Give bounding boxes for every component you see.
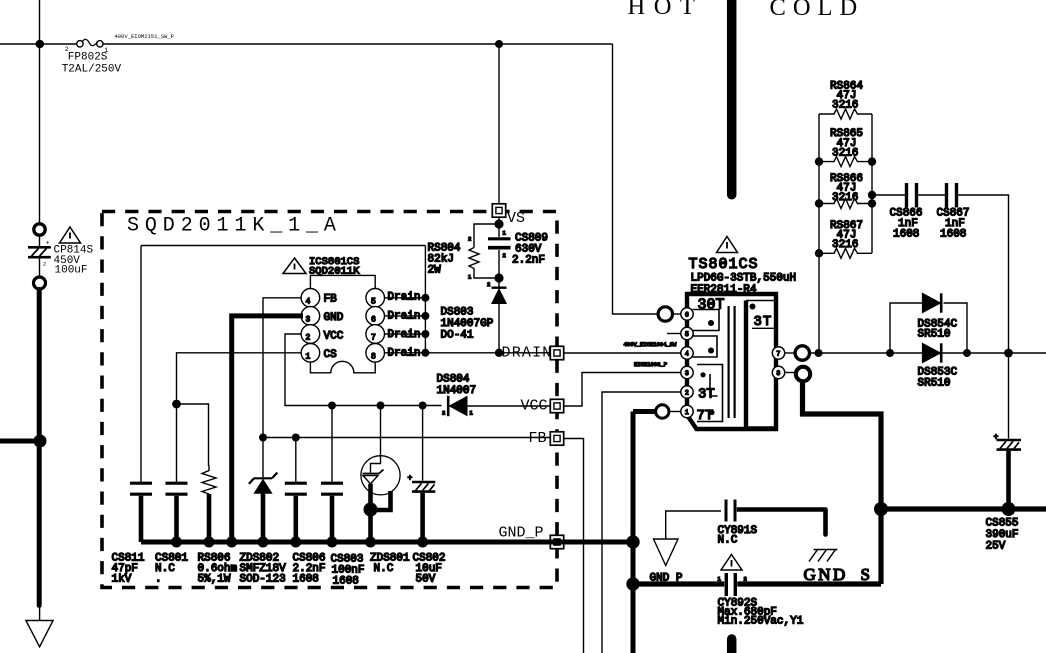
svg-text:6: 6 — [685, 312, 689, 319]
node junction (967,353) — [963, 349, 971, 357]
svg-text:2: 2 — [306, 334, 311, 343]
svg-text:GND: GND — [324, 312, 344, 324]
svg-text:LPD6G-3STB,550uH: LPD6G-3STB,550uH — [691, 273, 797, 285]
diode DS804 1N4007 — [437, 374, 551, 417]
svg-text:3: 3 — [685, 370, 689, 377]
svg-text:SOD-123: SOD-123 — [240, 574, 286, 586]
diode DS803 1N4007GP — [441, 278, 507, 353]
wire: drain stubs to rail — [385, 298, 426, 353]
node VS junction (499,224) — [494, 219, 503, 228]
svg-text:+: + — [46, 240, 50, 247]
pin 4 FB — [301, 289, 320, 308]
wire: thick stub ring1 to x=633 — [633, 409, 656, 414]
svg-text:T2AL/250V: T2AL/250V — [62, 63, 122, 75]
svg-text:25V: 25V — [986, 541, 1006, 553]
warning triangle CP814S — [60, 227, 81, 243]
wire: FB pin4 left and down x=263 — [263, 298, 301, 438]
wire: VCC pin2 left, down x=285, right y=405.5 — [285, 334, 442, 406]
svg-text:5: 5 — [685, 331, 689, 338]
capacitor CP814S — [28, 236, 94, 277]
wire: VS drop x=499 — [498, 44, 500, 224]
svg-text:6: 6 — [371, 316, 376, 325]
svg-text:DS803: DS803 — [441, 307, 474, 319]
node: junction (40,441) — [34, 435, 47, 448]
node junction (633,542) — [626, 535, 639, 548]
op-amp/controller IC U1 ICS801CS SQD2011K — [283, 256, 421, 373]
svg-text:3T: 3T — [698, 387, 715, 403]
svg-text:7: 7 — [371, 334, 376, 343]
svg-text:GND: GND — [804, 565, 848, 584]
wire: GND pin3 thick to x=231.7 down — [232, 316, 303, 540]
port GND_P — [550, 535, 563, 548]
svg-text:2: 2 — [744, 576, 747, 583]
capacitor CS811 47pF 1kV — [112, 483, 153, 585]
svg-text:3T: 3T — [754, 314, 773, 330]
zener ZDS802 SMFZ18V — [240, 438, 287, 586]
svg-text:30T: 30T — [698, 297, 725, 314]
wire: thick pin8 return path — [803, 380, 882, 584]
wire: thin stub to ground — [39, 608, 41, 621]
wire: DRAIN port to transformer pin4 — [564, 352, 682, 354]
wire: DS854C bypass branch — [890, 303, 967, 353]
svg-text:7: 7 — [776, 351, 780, 358]
node junction (499,352.8) — [495, 349, 503, 357]
wire: transformer pin2 to x=602 down — [602, 392, 682, 653]
warning triangle IC — [283, 258, 306, 274]
connector ring at pin6 — [658, 307, 672, 321]
ground chassis GND_S symbol — [809, 550, 838, 562]
svg-text:FP802S: FP802S — [68, 51, 108, 63]
wire: VCC port to transformer pin3 — [564, 373, 682, 407]
pin 1 CS — [301, 344, 320, 363]
svg-text:HOT: HOT — [628, 0, 704, 20]
connector ring at pin7 — [784, 352, 796, 354]
resistor RS804 82kJ 2W — [428, 224, 500, 281]
winding aux (3T) — [697, 365, 723, 422]
node junction (422.6,405.5) — [419, 402, 427, 410]
capacitor CY891S N.C — [666, 500, 826, 547]
pin 8 — [772, 366, 784, 378]
barrier bar HOT/COLD top — [727, 0, 737, 195]
svg-text:1N4007GP: 1N4007GP — [441, 318, 494, 330]
wire: thick primary bus x=39 down — [37, 290, 42, 606]
svg-text:2: 2 — [442, 410, 445, 417]
svg-text:1608: 1608 — [333, 576, 359, 588]
node junction (332,405.5) — [328, 402, 336, 410]
svg-text:1kV: 1kV — [112, 574, 132, 586]
pin 2 — [681, 386, 693, 398]
winding P2 — [693, 336, 718, 357]
barrier bar bottom — [727, 639, 737, 653]
svg-text:EIOM1998_P: EIOM1998_P — [634, 361, 667, 368]
pin 5 Drain — [366, 289, 385, 308]
connector ring at pin1 — [656, 405, 669, 418]
node junction (1008.5,509) — [1002, 502, 1016, 516]
port DRAIN — [550, 346, 563, 359]
svg-text:S: S — [861, 565, 870, 584]
pin 8 Drain — [366, 344, 385, 363]
pin 7 — [772, 347, 784, 359]
resistor RS867 47J 3216 — [819, 220, 872, 258]
svg-text:400V_EIOM1994_SW: 400V_EIOM1994_SW — [624, 341, 678, 348]
wire: CS pin1 left, down x=176.5 — [177, 353, 302, 482]
svg-text:SQD2011K: SQD2011K — [309, 266, 360, 278]
svg-text:2: 2 — [503, 252, 506, 259]
svg-text:N.C: N.C — [374, 563, 394, 575]
capacitor CS866 1nF 1608 — [890, 183, 923, 241]
diode DS853C SR510 — [918, 343, 958, 389]
svg-text:GND_P: GND_P — [499, 525, 544, 542]
svg-text:2: 2 — [487, 281, 490, 288]
svg-text:1N4007: 1N4007 — [437, 385, 477, 397]
port FB — [550, 432, 563, 445]
svg-text:2.2nF: 2.2nF — [512, 255, 545, 267]
capacitor CS803 100nF — [321, 406, 365, 588]
node bus junctions — [171, 537, 182, 548]
svg-text:1608: 1608 — [293, 574, 319, 586]
resistor RS864 47J 3216 — [819, 81, 872, 120]
svg-text:1608: 1608 — [940, 229, 966, 241]
svg-text:FB: FB — [529, 430, 547, 447]
wire: FB port right and down x=583.5 — [564, 439, 584, 653]
resistor RS806 0.6ohm — [198, 466, 238, 586]
node junction (881,509) — [874, 502, 888, 516]
connector ring top of CP814S — [34, 224, 45, 235]
svg-text:2: 2 — [685, 390, 689, 397]
svg-text:2: 2 — [43, 261, 46, 268]
wire: GND_P bus y=542 — [141, 540, 633, 545]
capacitor CS855 390uF 25V (electrolytic) — [986, 353, 1022, 553]
connector ring at pin8 — [784, 372, 796, 374]
svg-text:8: 8 — [776, 370, 780, 377]
svg-text:3216: 3216 — [832, 100, 858, 112]
node junctions RS865 row — [815, 157, 823, 165]
node junction (633,584) — [626, 577, 639, 590]
node junction (263,437.5) — [259, 434, 267, 442]
svg-text:1: 1 — [306, 353, 311, 362]
fuse FP802S — [62, 39, 122, 75]
pin 5 — [681, 327, 693, 339]
svg-text:3216: 3216 — [832, 239, 858, 251]
capacitor CY892S Max.680pF — [718, 555, 804, 628]
svg-text:3: 3 — [306, 316, 311, 325]
resistor RS866 47J 3216 — [819, 173, 872, 209]
svg-text:2: 2 — [468, 236, 471, 243]
svg-text:VS: VS — [507, 210, 525, 227]
svg-text:4: 4 — [685, 351, 689, 358]
wire: GND_S bus y=584 — [633, 581, 881, 586]
ground: primary ground triangle — [26, 621, 53, 647]
node junction (499,278) — [494, 273, 503, 282]
node junction (176.5,404) — [172, 400, 181, 409]
node drain rail junctions — [421, 294, 429, 302]
wire: AC input line y=44 — [0, 43, 613, 45]
svg-text:Drain: Drain — [388, 329, 421, 341]
capacitor CS809 630V 2.2nF — [488, 224, 548, 274]
svg-text:GND P: GND P — [650, 573, 683, 585]
node junction RS867 row — [815, 249, 823, 257]
pin 6 — [681, 308, 693, 320]
pin 4 — [681, 347, 693, 359]
pin 2 VCC — [301, 325, 320, 344]
svg-text:50V: 50V — [416, 574, 436, 586]
node junction (1008.5,353) — [1004, 349, 1013, 358]
svg-text:N.C: N.C — [718, 535, 738, 547]
transformer TS801CS — [681, 237, 796, 430]
svg-text:CS855: CS855 — [986, 518, 1019, 530]
connector ring bottom of CP814S — [34, 277, 46, 289]
wire: secondary output line y=353 — [809, 352, 1046, 354]
node junction (890,353) — [886, 349, 894, 357]
pin 3 GND — [301, 307, 320, 326]
transformer body outline — [687, 294, 776, 429]
warning triangle TS801CS — [717, 237, 738, 253]
port VCC — [550, 399, 563, 412]
wire: DRAIN line to port — [425, 352, 550, 354]
svg-text:DO-41: DO-41 — [441, 330, 474, 342]
wire: thick vertical x=633 — [631, 412, 636, 653]
svg-text:2W: 2W — [428, 265, 442, 277]
port VS — [492, 204, 505, 217]
wire: to transformer pin6: x=612.5 down, y=314 right — [613, 44, 659, 314]
svg-text:8: 8 — [371, 353, 376, 362]
svg-text:1608: 1608 — [893, 229, 919, 241]
svg-text:SR510: SR510 — [918, 329, 951, 341]
winding secondary (3T right) — [744, 301, 748, 430]
svg-text:400V_EIOM2151_SW_P: 400V_EIOM2151_SW_P — [115, 33, 174, 40]
wire: left vertical x=39.5 — [39, 0, 41, 223]
wire: secondary GND bus y=509 — [881, 506, 1046, 511]
diode DS854C SR510 — [918, 293, 958, 340]
svg-text:COLD: COLD — [770, 0, 865, 21]
wire: FB node line y=437.5 — [263, 437, 550, 439]
node junction (818.5,353) — [815, 349, 823, 357]
svg-text:VCC: VCC — [324, 331, 344, 343]
svg-text:4: 4 — [306, 298, 311, 307]
core lines — [729, 306, 735, 418]
svg-text:FB: FB — [324, 294, 338, 306]
pin 7 Drain — [366, 325, 385, 344]
wire: pin5 stub — [667, 333, 682, 335]
node: junction at (39.8,44) — [36, 40, 45, 49]
capacitor CS802 10uF 50V (electrolytic) — [408, 406, 446, 586]
svg-text:SR510: SR510 — [918, 378, 951, 390]
capacitor CS806 2.2nF — [285, 438, 326, 586]
svg-text:3216: 3216 — [832, 192, 858, 204]
pin 3 — [681, 366, 693, 378]
resistor RS865 47J 3216 — [819, 128, 872, 167]
node junction (295.8,437.5) — [292, 434, 300, 442]
capacitor CS867 1nF 1608 — [937, 183, 970, 241]
ground GND_P triangle — [654, 539, 679, 566]
svg-text:.: . — [155, 574, 162, 586]
svg-text:Min.250Vac,Y1: Min.250Vac,Y1 — [718, 616, 804, 628]
svg-text:+: + — [408, 474, 413, 483]
svg-text:DS804: DS804 — [437, 374, 470, 386]
node junctions RS866 row — [815, 199, 823, 207]
pin 6 Drain — [366, 307, 385, 326]
wire: snubber top run y=245.5 to CS811 — [141, 246, 425, 483]
pin 1 — [681, 405, 693, 417]
svg-text:TS801CS: TS801CS — [689, 256, 759, 273]
resistor network rails — [819, 114, 872, 353]
svg-text:SQD2011K_1_A: SQD2011K_1_A — [127, 215, 342, 238]
wire: drain rail x=425.4 — [424, 246, 426, 353]
svg-text:1: 1 — [685, 409, 689, 416]
node: junction (499,44) — [495, 40, 503, 48]
wire: thick line to left edge y=441 — [0, 439, 40, 444]
svg-text:5: 5 — [371, 298, 376, 307]
wire: CS branch to RS806 — [177, 404, 209, 466]
svg-text:3216: 3216 — [832, 148, 858, 160]
svg-text:5%,1W: 5%,1W — [198, 574, 231, 586]
capacitor CS801 N.C — [155, 483, 188, 585]
wire: coupling caps line y=195 — [872, 195, 1009, 353]
zener ZDS801 N.C (circled) — [361, 406, 410, 576]
svg-text:100uF: 100uF — [55, 265, 88, 277]
svg-text:390uF: 390uF — [986, 529, 1019, 541]
svg-text:CS: CS — [324, 349, 338, 361]
node junction (380.5,405.5) — [377, 402, 385, 410]
dashed module box SQD2011K_1_A — [102, 212, 557, 588]
